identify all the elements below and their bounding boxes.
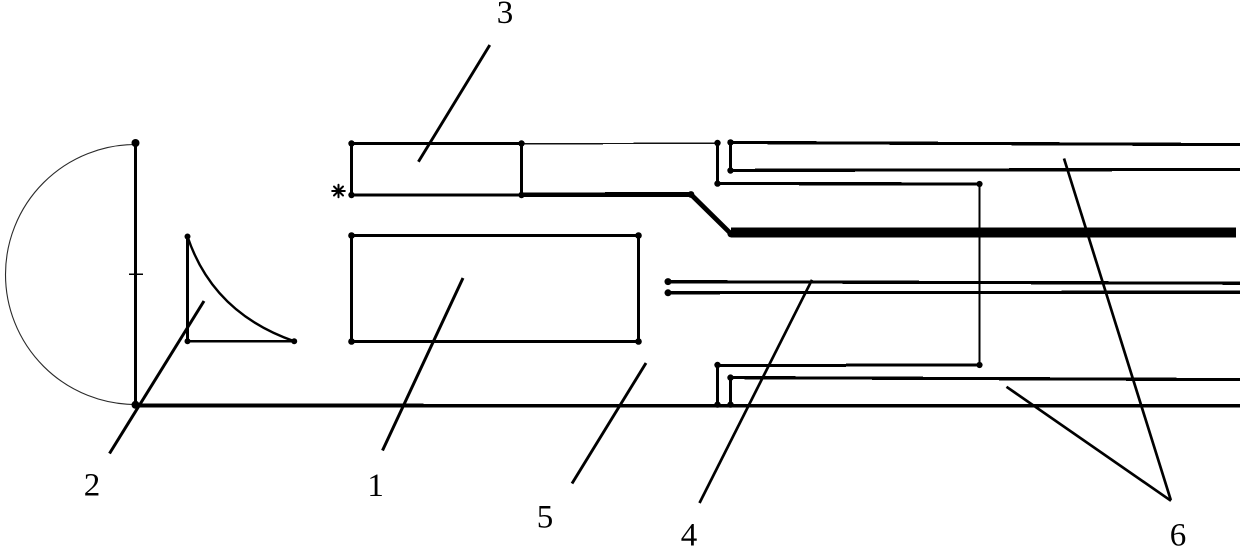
svg-text:5: 5	[537, 499, 554, 535]
svg-text:4: 4	[681, 518, 698, 546]
svg-text:2: 2	[84, 468, 101, 504]
svg-text:3: 3	[497, 0, 514, 31]
svg-text:1: 1	[367, 468, 384, 504]
svg-text:6: 6	[1170, 518, 1187, 546]
